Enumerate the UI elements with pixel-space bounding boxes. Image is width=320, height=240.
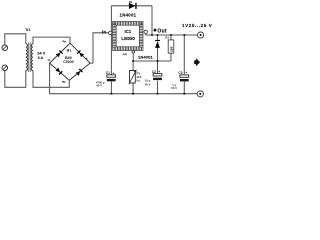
svg-text:D1: D1: [129, 0, 133, 4]
svg-text:40 V: 40 V: [96, 84, 102, 88]
svg-text:+: +: [158, 70, 160, 74]
svg-text:lin.: lin.: [137, 78, 141, 82]
svg-text:C3: C3: [178, 71, 182, 75]
svg-text:IC1: IC1: [125, 29, 132, 34]
svg-text:3 A: 3 A: [38, 56, 44, 60]
svg-text:40 V: 40 V: [145, 83, 151, 87]
svg-text:24 V: 24 V: [37, 51, 45, 56]
svg-text:C2: C2: [152, 70, 156, 74]
svg-text:1N4001: 1N4001: [120, 13, 137, 18]
svg-text:B1: B1: [67, 48, 72, 52]
svg-text:+: +: [112, 72, 114, 76]
svg-text:R1: R1: [165, 36, 169, 40]
svg-text:+: +: [185, 71, 187, 75]
svg-text:63 V: 63 V: [171, 86, 177, 90]
svg-text:1N4001: 1N4001: [138, 55, 154, 60]
svg-text:220: 220: [169, 46, 173, 51]
svg-text:C5000: C5000: [63, 60, 74, 64]
svg-text:In: In: [102, 29, 107, 34]
svg-text:Out: Out: [157, 28, 167, 34]
svg-text:LM350: LM350: [121, 36, 135, 41]
svg-text:adj: adj: [123, 52, 127, 56]
svg-text:Tr1: Tr1: [25, 28, 30, 32]
svg-text:+: +: [86, 56, 89, 61]
svg-text:C1: C1: [106, 71, 110, 75]
svg-text:1V25...25 V: 1V25...25 V: [182, 23, 212, 28]
